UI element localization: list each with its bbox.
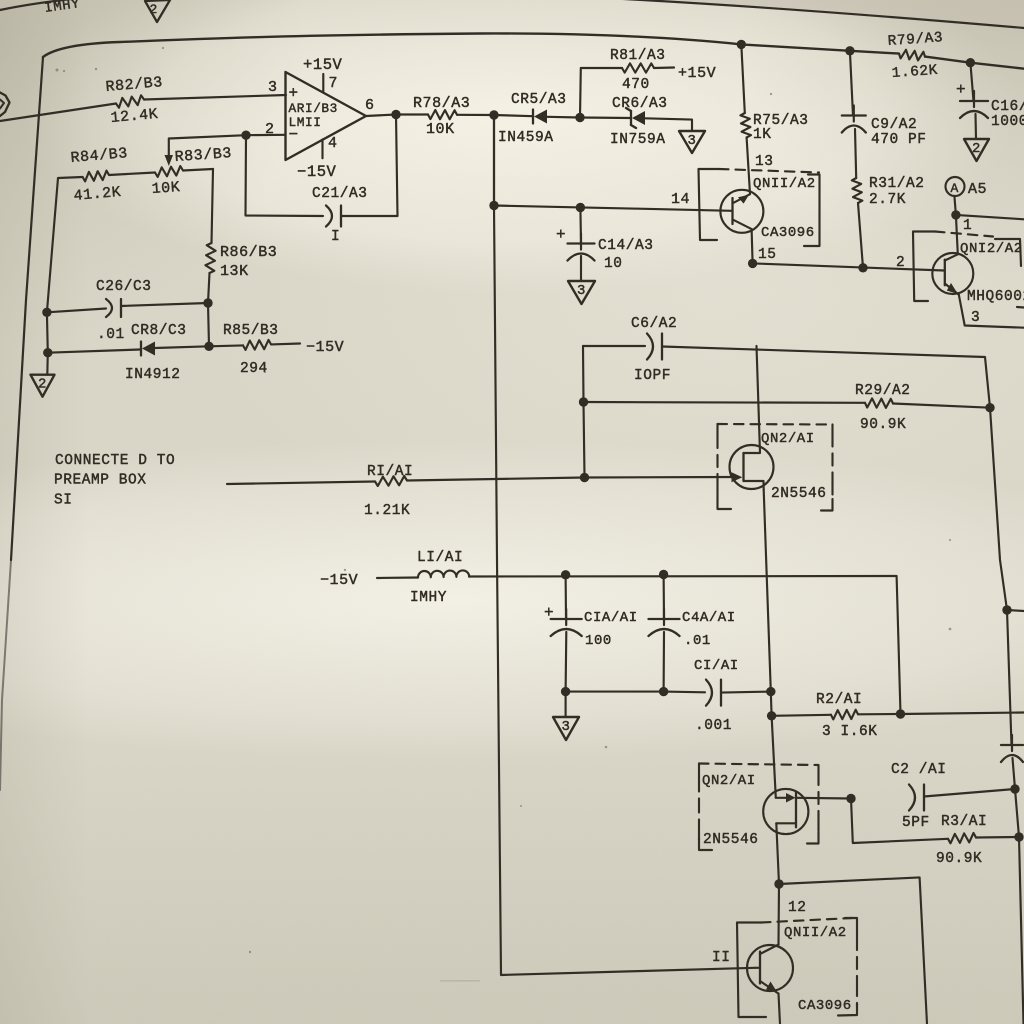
node: QN12 collector — [951, 210, 960, 219]
svg-text:R29/A2: R29/A2 — [855, 383, 911, 399]
svg-text:II: II — [712, 950, 731, 966]
node A5 circle — [946, 177, 965, 196]
svg-text:R2/AI: R2/AI — [816, 692, 862, 708]
node: output/C21 — [391, 110, 400, 119]
wire: cap to C2/R3 nodes — [1013, 758, 1024, 1024]
svg-text:QNI2/A2: QNI2/A2 — [960, 241, 1023, 257]
svg-text:ARI/B3: ARI/B3 — [289, 101, 338, 116]
QN2/A1 label (upper) — [761, 431, 815, 447]
transistor QN11/A2 (upper) — [720, 190, 763, 264]
resistor R1/A1 — [364, 464, 413, 519]
svg-text:2N5546: 2N5546 — [771, 486, 827, 502]
transistor QN2/A1 (upper) — [730, 346, 774, 490]
dust specks — [56, 47, 952, 982]
QN11/A2 label (upper) — [753, 176, 816, 192]
wire: right leg C26 to CR8 — [208, 303, 209, 346]
node: C26 right — [203, 298, 212, 307]
MHQ6002 label — [967, 289, 1024, 305]
capacitor C16/A2 — [956, 63, 1024, 130]
node: R29 right — [985, 403, 994, 412]
wire: CR6 to ground 3 — [645, 118, 692, 131]
wire: C9 to R31 — [855, 129, 856, 178]
svg-text:+: + — [956, 81, 966, 99]
wire: left leg down from R84 — [47, 177, 83, 312]
node: y206 left — [489, 201, 498, 210]
wire: output node down — [493, 115, 495, 206]
pin 2 label — [896, 255, 905, 271]
2N5546 label (upper) — [771, 486, 827, 502]
wire: output node long feedback down — [494, 115, 755, 975]
wire: ground rail C1 — [566, 691, 705, 694]
capacitor C2/A1 — [891, 762, 947, 831]
capacitor C14/A3 — [556, 208, 654, 273]
off-page connector arrow (left edge) — [0, 93, 10, 117]
svg-text:5PF: 5PF — [902, 815, 930, 831]
wire: -15V to L1 — [377, 576, 418, 579]
transistor QN12/A2 — [932, 253, 973, 295]
resistor R81/A3 — [610, 48, 674, 93]
wire: C26 right — [121, 303, 208, 306]
capacitor C1/A1 — [694, 658, 739, 734]
svg-text:2.7K: 2.7K — [869, 192, 906, 208]
wire: C6 node down to gate node — [584, 402, 585, 477]
ground triangle 2 (C16) — [964, 139, 989, 161]
svg-text:QN2/AI: QN2/AI — [702, 773, 756, 789]
svg-text:C2 /AI: C2 /AI — [891, 762, 947, 778]
wire: drain node down to QN11 — [777, 884, 780, 945]
resistor R86/B3 — [205, 243, 277, 280]
svg-text:+: + — [544, 604, 554, 622]
svg-text:100: 100 — [585, 633, 612, 649]
node: right column branch — [1002, 605, 1011, 614]
svg-text:12: 12 — [788, 900, 807, 916]
svg-text:1K: 1K — [753, 127, 772, 143]
svg-text:LI/AI: LI/AI — [417, 550, 463, 566]
svg-text:90.9K: 90.9K — [860, 417, 906, 433]
svg-text:3: 3 — [268, 79, 278, 96]
svg-text:14: 14 — [671, 191, 690, 208]
resistor R82/B3 — [105, 74, 164, 127]
pin 14 label — [671, 191, 690, 208]
wire: L1 to corner, down to R2 — [469, 576, 901, 714]
svg-text:IN459A: IN459A — [498, 130, 554, 146]
node: C4A top — [659, 570, 668, 579]
svg-text:QNII/A2: QNII/A2 — [753, 176, 816, 192]
svg-text:1.62K: 1.62K — [891, 63, 938, 82]
pin 11 label — [712, 950, 731, 966]
wire: R31 to base rail — [858, 203, 863, 268]
resistor R79/A3 — [887, 30, 943, 82]
svg-text:PREAMP BOX: PREAMP BOX — [54, 473, 147, 489]
resistor R75/A3 — [740, 113, 808, 143]
diode CR8/C3 — [125, 323, 187, 383]
wire: CR8 anode — [48, 350, 140, 353]
svg-text:QNII/A2: QNII/A2 — [784, 925, 847, 941]
wire: bus to R75 — [741, 44, 745, 113]
resistor R85/B3 — [209, 323, 300, 377]
QN11 lower dashed box — [737, 918, 857, 1017]
svg-text:+: + — [556, 226, 566, 244]
+15V label (R81) — [678, 65, 716, 82]
wire: node to right corner down — [779, 877, 927, 1024]
svg-text:13K: 13K — [220, 263, 249, 280]
QN12/A2 label — [960, 241, 1023, 257]
node: R31 bottom — [858, 263, 867, 272]
resistor R2/A1 — [772, 692, 901, 740]
wire: C6 right to corner, down right side — [662, 347, 990, 408]
svg-text:6: 6 — [365, 97, 375, 114]
wire: source node to R2 node — [770, 692, 773, 716]
svg-text:C26/C3: C26/C3 — [96, 279, 152, 295]
svg-text:C21/A3: C21/A3 — [312, 186, 368, 202]
op-amp AR1/B3 LM11 — [286, 72, 367, 160]
node: C2 right — [1010, 784, 1019, 793]
svg-text:1: 1 — [963, 218, 972, 234]
node: C1A top — [561, 570, 570, 579]
wire: bus to C9 — [850, 51, 853, 116]
wire: pin2 node to R83 wiper — [169, 135, 246, 158]
label 1MHY (top) — [43, 0, 81, 17]
wire: C16 to ground — [974, 114, 977, 139]
QN12 dashed box — [913, 232, 1024, 308]
node: gate node — [580, 473, 589, 482]
svg-text:470 PF: 470 PF — [871, 132, 927, 148]
node: bus junction to C9 — [845, 46, 854, 55]
diode CR5/A3 — [498, 92, 567, 146]
pin 3 label — [971, 310, 980, 326]
svg-text:A: A — [951, 181, 959, 196]
wire: branch to right edge — [1007, 610, 1024, 611]
svg-text:CIA/AI: CIA/AI — [584, 610, 638, 626]
capacitor C4A/A1 — [649, 575, 736, 650]
node: bus junction to R75 — [737, 40, 746, 49]
svg-text:QN2/AI: QN2/AI — [761, 431, 815, 447]
wire: node to right edge — [956, 215, 1024, 219]
capacitor C1A/A1 — [544, 575, 638, 649]
transistor QN2/A1 (lower) — [763, 789, 808, 884]
wire: R78 to CR5 — [457, 115, 533, 116]
pin 6 label — [365, 97, 375, 114]
svg-text:90.9K: 90.9K — [936, 851, 982, 867]
wire: R2 node to right edge — [901, 713, 1024, 715]
node: R2 left — [767, 711, 776, 720]
wire: left edge to op-amp pin 3 — [0, 95, 286, 121]
node: R29 left — [579, 397, 588, 406]
CA3096 label (upper) — [761, 225, 815, 241]
svg-text:3: 3 — [562, 719, 571, 735]
wire: pin2 node down to C21 — [246, 135, 324, 216]
svg-text:RI/AI: RI/AI — [367, 464, 413, 480]
capacitor C6/A2 — [631, 316, 677, 384]
svg-text:LMII: LMII — [289, 115, 322, 130]
svg-text:294: 294 — [240, 361, 268, 377]
wire: C1 right — [721, 692, 771, 693]
svg-text:7: 7 — [329, 75, 339, 92]
op-amp pin 7 — [323, 74, 338, 93]
wire: pin 2 — [246, 134, 286, 137]
svg-text:3: 3 — [577, 283, 586, 299]
svg-text:C9/A2: C9/A2 — [871, 117, 917, 133]
svg-text:CI/AI: CI/AI — [694, 658, 739, 674]
svg-text:2: 2 — [972, 141, 981, 157]
2N5546 label (lower) — [703, 832, 759, 848]
wire: R29 rail — [584, 402, 991, 408]
svg-text:13: 13 — [755, 154, 774, 170]
svg-text:−15V: −15V — [306, 339, 344, 356]
pin 15 label — [758, 247, 777, 263]
wire: right column to cap — [1007, 610, 1012, 745]
svg-text:1.21K: 1.21K — [364, 503, 410, 519]
node: R3 right — [1014, 832, 1023, 841]
svg-text:R3/AI: R3/AI — [941, 814, 987, 830]
resistor R84/B3 — [70, 145, 129, 205]
svg-text:IN759A: IN759A — [610, 132, 666, 148]
ground triangle 3 (C14) — [568, 281, 595, 304]
+15V label (op-amp) — [303, 56, 343, 74]
QN2 lower dashed box — [699, 764, 819, 851]
svg-text:+15V: +15V — [678, 65, 716, 82]
svg-text:10K: 10K — [151, 179, 181, 198]
svg-text:CR5/A3: CR5/A3 — [511, 92, 567, 108]
resistor R31/A2 — [852, 176, 925, 208]
node: R78/CR5 junction — [489, 110, 498, 119]
ground triangle 2 (left) — [31, 353, 55, 397]
wire: right column upper — [990, 408, 1007, 610]
A5 label — [968, 181, 987, 198]
wire: C2 node down to R3 — [851, 799, 948, 844]
ground triangle 3 (CR6) — [679, 131, 705, 153]
left frame line — [0, 57, 43, 790]
svg-text:R86/B3: R86/B3 — [220, 244, 277, 261]
wire: C6 left leg down — [582, 346, 585, 402]
pin 12 label — [788, 900, 807, 916]
-15V label (L1) — [320, 572, 358, 589]
svg-text:CR8/C3: CR8/C3 — [131, 323, 187, 339]
wire: left leg C26 to CR8 — [46, 312, 49, 352]
wire: CR8 to node — [155, 346, 209, 348]
node: C4A bottom — [659, 687, 668, 696]
wire: collector down to QN12 — [956, 215, 958, 254]
svg-text:470: 470 — [622, 77, 650, 93]
wire: right leg down to R86 — [212, 169, 214, 243]
R83 wiper arrow — [165, 155, 174, 166]
capacitor C21/A3 — [312, 186, 368, 245]
pin 3 label — [268, 79, 278, 96]
svg-text:I: I — [331, 229, 340, 245]
svg-text:3 I.6K: 3 I.6K — [822, 724, 878, 740]
wire: R84 to R83 to corner — [109, 169, 213, 175]
wire: node to QN11 base — [494, 206, 732, 211]
wire: CR5 to CR6 node — [547, 116, 580, 119]
node: inverting input — [241, 131, 250, 140]
wire: QN2 source down — [764, 490, 771, 692]
svg-text:C4A/AI: C4A/AI — [682, 610, 736, 626]
wire: C21 to output node — [341, 115, 398, 217]
svg-text:.01: .01 — [684, 633, 711, 649]
svg-text:1000: 1000 — [991, 114, 1024, 130]
QN2 upper dashed box — [718, 424, 833, 511]
node: C1 right / source — [766, 687, 775, 696]
-15V label (op-amp) — [297, 163, 337, 181]
wire: C26 left — [47, 309, 106, 313]
diode CR6/A3 (zener) — [580, 96, 668, 148]
QN11/A2 label (lower) — [784, 925, 847, 941]
capacitor C26/C3 — [96, 279, 152, 343]
op-amp pin 4 — [323, 135, 338, 158]
wire: C2 right — [924, 789, 1015, 797]
CA3096 label (lower) — [798, 998, 852, 1014]
top bus wire — [43, 33, 1024, 68]
node: bus junction to C16 — [966, 58, 975, 67]
svg-text:2N5546: 2N5546 — [703, 832, 759, 848]
svg-text:C16/A: C16/A — [991, 99, 1024, 115]
capacitor C9/A2 — [842, 106, 927, 149]
wire: op-amp output — [366, 115, 428, 117]
svg-text:2: 2 — [150, 2, 158, 17]
svg-text:.01: .01 — [97, 327, 125, 343]
label CONNECTED TO PREAMP BOX S1 — [54, 453, 175, 509]
node: CR8/R85 left — [43, 348, 52, 357]
svg-text:R85/B3: R85/B3 — [223, 323, 279, 339]
node: QN11 emitter — [748, 259, 757, 268]
wire: QN2 lower drain to C2 — [797, 797, 851, 800]
transistor QN11/A2 (lower) — [747, 945, 793, 1024]
QN11 upper dashed box — [699, 169, 820, 246]
svg-text:IMHY: IMHY — [410, 590, 447, 606]
capacitor (right edge, partial) — [1001, 735, 1023, 762]
svg-text:3: 3 — [688, 133, 697, 149]
wire: C1A bottom — [565, 632, 568, 692]
svg-text:10K: 10K — [426, 121, 455, 138]
pin 13 label — [755, 154, 774, 170]
page top edge — [0, 0, 1024, 28]
svg-text:R81/A3: R81/A3 — [610, 48, 666, 64]
svg-text:IN4912: IN4912 — [125, 367, 181, 383]
svg-text:+: + — [289, 85, 299, 103]
wire: R1 line — [227, 478, 585, 485]
node: CR5/CR6/R81 — [575, 113, 584, 122]
wire: C4A bottom — [663, 632, 666, 692]
svg-text:R31/A2: R31/A2 — [869, 176, 925, 192]
svg-text:IOPF: IOPF — [634, 368, 671, 384]
resistor R3/A1 — [936, 814, 1019, 867]
wire: C14 to ground — [580, 256, 582, 281]
wire: node up to R81 — [580, 68, 622, 118]
svg-text:15: 15 — [758, 247, 777, 263]
svg-text:C6/A2: C6/A2 — [631, 316, 677, 332]
pin 2 label — [265, 121, 275, 138]
wire: R75 to QN11 collector — [747, 138, 750, 195]
QN2/A1 label (lower) — [702, 773, 756, 789]
svg-text:R78/A3: R78/A3 — [413, 95, 470, 112]
svg-text:CA3096: CA3096 — [761, 225, 815, 241]
wire: gate lead down — [772, 716, 776, 798]
svg-text:+15V: +15V — [303, 56, 343, 74]
node: C2 left — [846, 794, 855, 803]
node: R2 right — [896, 709, 905, 718]
node: QN11 lower collector — [774, 879, 783, 888]
node: CR8/R85 right — [204, 342, 213, 351]
wire: QN12 emitter out — [959, 295, 1024, 328]
svg-text:C14/A3: C14/A3 — [598, 238, 654, 254]
svg-text:A5: A5 — [968, 181, 987, 198]
svg-text:−15V: −15V — [320, 572, 358, 589]
wire: R86 to C26 node — [208, 273, 210, 303]
inductor L1/A1 — [410, 550, 469, 606]
svg-text:.001: .001 — [695, 718, 732, 734]
resistor R29/A2 — [855, 383, 911, 433]
svg-text:MHQ6002: MHQ6002 — [967, 289, 1024, 305]
svg-text:2: 2 — [38, 377, 47, 393]
off-page triangle 2 (top) — [145, 0, 170, 22]
svg-text:10: 10 — [604, 256, 623, 272]
node: C1A bottom — [561, 687, 570, 696]
svg-text:CR6/A3: CR6/A3 — [612, 96, 668, 112]
resistor R78/A3 — [413, 95, 470, 138]
-15V label (R85) — [306, 339, 344, 356]
svg-text:CONNECTE D TO: CONNECTE D TO — [55, 453, 175, 469]
ground triangle 3 (C1A) — [553, 692, 579, 740]
svg-text:SI: SI — [54, 493, 73, 509]
node: C14 top — [576, 203, 585, 212]
pin 1 label — [963, 218, 972, 234]
svg-text:CA3096: CA3096 — [798, 998, 852, 1014]
svg-text:−15V: −15V — [297, 163, 337, 181]
wire: QN11 emitter to QN12 base — [753, 263, 944, 270]
svg-text:3: 3 — [971, 310, 980, 326]
wire: C6 left — [583, 345, 645, 347]
wire: A5 to collector node — [954, 196, 956, 215]
svg-text:2: 2 — [896, 255, 905, 271]
wire: gate node to QN2 — [585, 476, 736, 479]
svg-text:4: 4 — [328, 135, 338, 152]
resistor R83/B3 (pot) — [151, 145, 232, 198]
node: C26 left — [42, 308, 51, 317]
